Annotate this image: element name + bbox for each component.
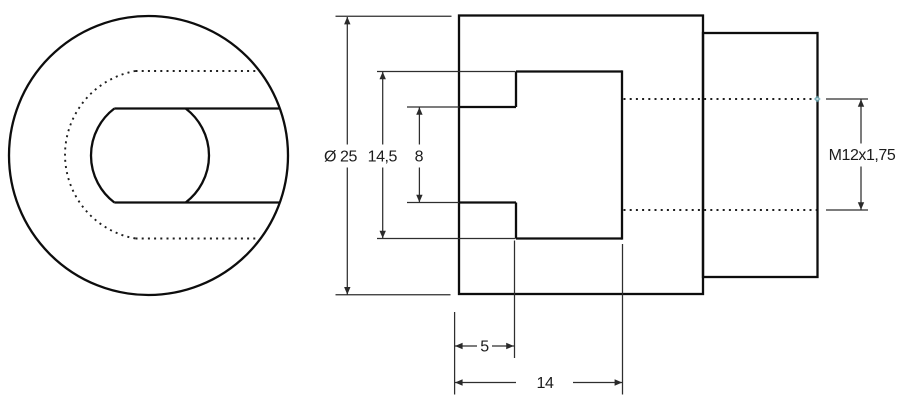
8 ext top bbox=[407, 106, 459, 108]
14 arrows bbox=[455, 379, 463, 385]
body rectangle bbox=[459, 16, 703, 295]
5 dim line bbox=[455, 345, 477, 347]
O25 ext bottom bbox=[336, 294, 451, 296]
hidden slot bottom line bbox=[136, 238, 260, 240]
step bottom vertical bbox=[515, 203, 517, 239]
svg-text:14: 14 bbox=[537, 375, 554, 392]
M12 ext top bbox=[826, 98, 868, 100]
step bottom horizontal bbox=[459, 201, 516, 203]
slot bottom edge bbox=[114, 201, 279, 203]
M12 ext bottom bbox=[826, 209, 868, 211]
notch right bbox=[621, 70, 623, 239]
arrowheads bbox=[344, 17, 864, 386]
hidden slot top line bbox=[136, 70, 260, 72]
hole right arc bbox=[186, 109, 209, 203]
svg-text:5: 5 bbox=[480, 338, 489, 355]
M12 dim line bbox=[860, 100, 862, 144]
step top vertical bbox=[515, 72, 517, 108]
5 arrows bbox=[455, 343, 463, 349]
14,5 dim line bbox=[382, 72, 384, 145]
14 dim line bbox=[455, 382, 516, 384]
boss rectangle bbox=[703, 33, 818, 277]
slot top edge bbox=[114, 107, 279, 109]
14,5 ext bottom bbox=[377, 238, 516, 240]
O25 ext top bbox=[336, 15, 452, 17]
8 ext bottom bbox=[407, 202, 459, 204]
hidden thread top line bbox=[624, 98, 818, 100]
hole left arc bbox=[91, 109, 114, 203]
O25 arrows bbox=[344, 17, 350, 25]
14,5 ext top bbox=[377, 71, 516, 73]
5-14 left ext bbox=[454, 312, 456, 395]
outer circle O25 bbox=[9, 16, 288, 295]
svg-text:8: 8 bbox=[415, 149, 424, 166]
svg-text:M12x1,75: M12x1,75 bbox=[829, 147, 896, 164]
O25 dim line bbox=[346, 17, 348, 145]
step top horizontal bbox=[459, 106, 516, 108]
8 arrows bbox=[416, 107, 422, 115]
svg-text:Ø 25: Ø 25 bbox=[324, 149, 357, 166]
8 dim line bbox=[418, 108, 420, 145]
endpoint marker bbox=[814, 96, 821, 103]
hidden thread bottom line bbox=[624, 209, 818, 211]
14 right ext bbox=[622, 244, 624, 395]
dimension texts bbox=[324, 147, 896, 392]
hidden slot end arc bbox=[65, 71, 135, 239]
14,5 arrows bbox=[380, 72, 386, 80]
svg-text:14,5: 14,5 bbox=[368, 149, 398, 166]
M12 arrows bbox=[858, 99, 864, 107]
notch bottom bbox=[516, 237, 622, 239]
5 right ext bbox=[514, 241, 516, 359]
notch top bbox=[516, 70, 622, 72]
